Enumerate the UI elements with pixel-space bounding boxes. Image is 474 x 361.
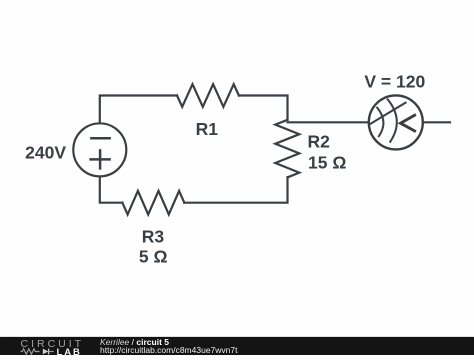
label R2 bbox=[308, 132, 331, 152]
wire top rail left segment bbox=[100, 96, 177, 124]
voltage source V1 bbox=[73, 123, 126, 176]
label R3 bbox=[142, 227, 165, 247]
svg-text:15 Ω: 15 Ω bbox=[308, 153, 346, 173]
wire right rail bottom segment bbox=[184, 177, 287, 202]
resistor R3 bbox=[122, 191, 184, 215]
footer title text bbox=[100, 337, 238, 355]
svg-text:V = 120: V = 120 bbox=[364, 72, 425, 92]
value label 15 Ω bbox=[308, 153, 346, 173]
resistor R2 bbox=[275, 120, 299, 178]
wire from node to voltmeter bbox=[288, 121, 369, 123]
svg-text:240V: 240V bbox=[25, 142, 66, 162]
wire voltmeter right lead bbox=[423, 121, 450, 123]
value label V = 120 bbox=[364, 72, 425, 92]
label R1 bbox=[196, 119, 219, 139]
value label 5 Ω bbox=[139, 247, 168, 267]
svg-text:LAB: LAB bbox=[57, 347, 82, 356]
value label 240V bbox=[25, 142, 66, 162]
svg-text:R1: R1 bbox=[196, 119, 219, 139]
wire top rail right segment bbox=[239, 96, 288, 120]
svg-text:R2: R2 bbox=[308, 132, 331, 152]
resistor R1 bbox=[177, 84, 239, 107]
svg-text:http://circuitlab.com/c8m43ue7: http://circuitlab.com/c8m43ue7wvn7t bbox=[100, 344, 238, 354]
svg-text:5 Ω: 5 Ω bbox=[139, 247, 168, 267]
CircuitLab logo bbox=[21, 338, 85, 358]
voltmeter VM1 bbox=[369, 95, 423, 149]
svg-text:R3: R3 bbox=[142, 227, 165, 247]
wire bottom rail left segment bbox=[100, 176, 123, 202]
